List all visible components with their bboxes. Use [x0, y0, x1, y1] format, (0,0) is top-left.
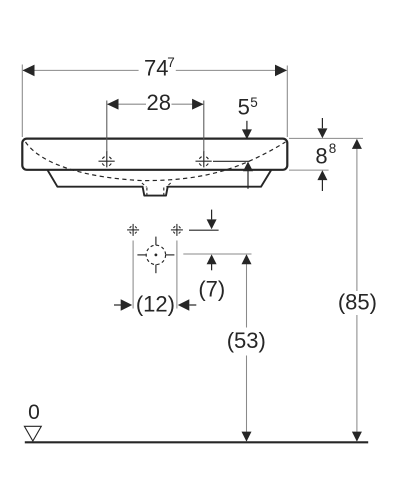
28 right extension line [203, 101, 205, 153]
(12) left arrow [114, 299, 132, 310]
svg-text:(12): (12) [136, 291, 175, 316]
(7) bottom arrow [207, 254, 217, 270]
zero level baseline [25, 441, 368, 443]
datum triangle [24, 426, 41, 441]
washbasin body outline [22, 139, 287, 170]
right mounting hole symbol [171, 224, 183, 236]
74.7 right extension line [286, 66, 288, 138]
(85) top arrowhead [352, 139, 362, 149]
svg-text:0: 0 [28, 401, 40, 424]
8.8 top extension line [289, 137, 363, 139]
svg-text:5: 5 [250, 95, 258, 110]
svg-text:28: 28 [147, 90, 171, 115]
74.7 right arrowhead [275, 65, 287, 77]
svg-text:74: 74 [144, 56, 168, 81]
svg-text:(53): (53) [227, 328, 266, 353]
28 left extension line [106, 101, 108, 153]
5.5 connector line [213, 160, 250, 162]
74.7 left extension line [21, 65, 23, 138]
(7) bottom line [183, 253, 251, 255]
(53) dimension line upper [246, 255, 248, 328]
5.5 top arrow [242, 121, 252, 139]
(85) dimension line upper [356, 140, 358, 292]
(53) dimension line lower [246, 356, 248, 442]
28 left arrowhead [107, 99, 119, 110]
svg-text:(85): (85) [338, 290, 377, 315]
drain funnel dashed lines [142, 183, 171, 195]
svg-text:7: 7 [167, 55, 175, 70]
(85) dimension line lower [356, 315, 358, 441]
drain symbol [137, 237, 174, 274]
svg-text:5: 5 [238, 94, 250, 119]
right tap hole symbol [196, 151, 212, 167]
(53) bottom arrowhead [242, 432, 252, 442]
(12) right extension line [176, 241, 178, 309]
svg-text:(7): (7) [198, 276, 225, 301]
washbasin apron [48, 170, 272, 196]
svg-text:8: 8 [329, 141, 337, 156]
(53) top arrowhead [242, 254, 252, 264]
5.5 bottom arrow [243, 162, 253, 189]
left tap hole symbol [99, 151, 115, 167]
(7) top line [189, 229, 219, 231]
8.8 bottom arrow [317, 170, 327, 191]
basin rim dashed curve [26, 142, 286, 181]
(12) left extension line [132, 241, 134, 309]
28 right arrowhead [192, 99, 204, 110]
svg-text:8: 8 [315, 143, 327, 168]
(85) bottom arrowhead [352, 432, 362, 442]
28 dimension line [107, 103, 204, 105]
8.8 top arrow [317, 118, 327, 138]
74.7 left arrowhead [23, 65, 35, 77]
left mounting hole symbol [127, 224, 139, 236]
8.8 bottom extension line [289, 169, 329, 171]
(12) right arrow [178, 299, 197, 310]
74.7 dimension line [23, 69, 287, 71]
(7) top arrow [207, 210, 217, 230]
